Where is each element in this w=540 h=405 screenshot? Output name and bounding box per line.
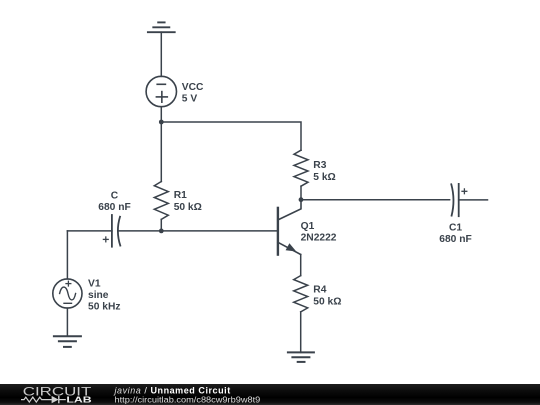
- svg-text:2N2222: 2N2222: [301, 233, 337, 244]
- svg-text:680 nF: 680 nF: [439, 234, 471, 245]
- ground (V1): [54, 336, 81, 347]
- svg-text:R3: R3: [313, 160, 326, 171]
- CircuitLab logo circuit line: [21, 396, 66, 403]
- footer bar: [0, 384, 540, 405]
- plus sign of C1: [462, 189, 467, 194]
- minus sign of V1: [64, 302, 72, 304]
- source V1: [53, 279, 82, 308]
- capacitor C: [112, 215, 120, 247]
- capacitor C1: [451, 184, 458, 216]
- transistor Q1 base bar: [277, 208, 279, 255]
- node collector junction: [299, 197, 304, 202]
- wire V1 to ground: [66, 308, 68, 336]
- wire emitter to R4: [300, 255, 302, 276]
- svg-text:LAB: LAB: [66, 396, 91, 405]
- svg-text:http://circuitlab.com/c88cw9rb: http://circuitlab.com/c88cw9rb9w8t9: [115, 394, 261, 404]
- wire node to R3 top: [161, 122, 301, 150]
- wire ground to VCC +: [160, 32, 162, 76]
- svg-text:Q1: Q1: [301, 221, 315, 232]
- wire VCC - to node: [160, 107, 162, 122]
- svg-text:5 kΩ: 5 kΩ: [313, 172, 335, 183]
- voltage source VCC: [146, 76, 176, 106]
- ground (top, at VCC): [148, 22, 175, 32]
- plus sign of V1: [66, 281, 71, 286]
- wire R4 to ground: [300, 312, 302, 353]
- Q1 emitter arrow: [286, 243, 297, 251]
- resistor R3: [294, 150, 308, 186]
- resistor R4: [294, 276, 308, 312]
- svg-text:R1: R1: [174, 190, 187, 201]
- svg-text:sine: sine: [88, 290, 109, 301]
- svg-text:50 kΩ: 50 kΩ: [174, 202, 202, 213]
- node VCC junction: [159, 120, 164, 125]
- resistor R1: [154, 182, 168, 220]
- wire C to base: [118, 230, 278, 232]
- svg-text:V1: V1: [88, 278, 101, 289]
- svg-text:50 kHz: 50 kHz: [88, 301, 120, 312]
- svg-text:VCC: VCC: [182, 82, 204, 93]
- wire node down to R1 top: [160, 122, 162, 182]
- wire C1 output: [459, 199, 488, 201]
- plus sign of C: [103, 237, 108, 242]
- wire collector node to C1: [301, 199, 450, 201]
- node base junction: [159, 229, 164, 234]
- svg-text:50 kΩ: 50 kΩ: [313, 296, 341, 307]
- svg-text:R4: R4: [313, 284, 326, 295]
- svg-text:C: C: [111, 191, 119, 202]
- wire R1 to base node: [160, 219, 162, 231]
- wire input left segment: [67, 230, 112, 232]
- wire left down to V1: [66, 231, 68, 279]
- svg-text:680 nF: 680 nF: [98, 202, 130, 213]
- Q1 emitter lead: [278, 242, 301, 254]
- Q1 collector lead: [278, 200, 301, 220]
- wire R3 to collector node: [300, 186, 302, 200]
- svg-text:5 V: 5 V: [182, 93, 198, 104]
- CircuitLab logo diode: [52, 396, 59, 403]
- svg-text:C1: C1: [449, 223, 462, 234]
- ground (bottom, at R4): [288, 352, 314, 362]
